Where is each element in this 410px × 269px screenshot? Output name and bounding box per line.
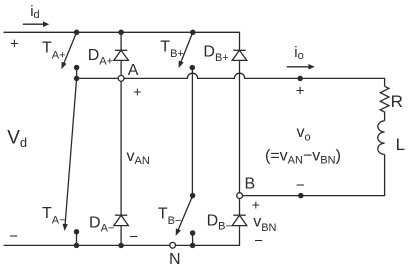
svg-text:id: id [30,3,39,21]
svg-text:−: − [9,228,18,245]
svg-text:DA−: DA− [89,215,114,235]
svg-text:TA−: TA− [42,205,66,227]
junction dot T_A- bottom terminal [74,229,80,235]
wire T_B- stub to bottom rail [192,233,194,245]
svg-text:R: R [391,92,403,111]
junction dot top rail / D_A+ leg [118,30,124,36]
wire node B down through D_B- to bottom rail [239,196,241,216]
junction dot B-line / T_B- leg [190,193,196,199]
svg-text:A: A [128,62,139,79]
svg-text:B: B [245,176,256,193]
svg-text:Vd: Vd [7,128,27,150]
svg-text:DB−: DB− [207,212,232,232]
svg-text:TB−: TB− [158,205,182,227]
wire D_B+ leg to hop [239,60,241,195]
junction dot T_A+ bottom terminal [74,65,80,71]
svg-text:TA+: TA+ [42,40,66,62]
current arrow i_d [23,21,50,27]
node B terminal circle [237,193,243,199]
diode D_A- [115,214,127,216]
svg-text:+: + [133,84,141,100]
svg-text:io: io [294,44,303,62]
junction dot T_B+ bottom terminal [190,65,196,71]
transistor-switch T_B- blade [178,196,193,232]
svg-text:DB+: DB+ [203,44,228,64]
transistor-switch T_B+ blade [180,32,192,63]
svg-text:+: + [10,36,19,53]
transistor-switch T_A- blade [65,78,77,226]
junction dot top rail / T_B+ leg [190,30,196,36]
junction dot top rail / T_A+ leg [74,30,80,36]
junction dot bottom rail / T_B- leg [190,243,196,249]
current arrow i_o [287,64,315,70]
switch T_B- arrowhead [176,228,181,236]
transistor-switch T_A+ blade [63,32,76,64]
svg-text:−: − [296,177,305,194]
node N terminal circle [170,242,176,248]
svg-text:−: − [129,229,138,246]
junction dot v_o plus terminal [297,76,303,82]
wire node A down to D_A- [120,78,122,215]
wire top dc rail (+) [4,32,240,50]
wire D_A+ leg upper [120,32,122,50]
wire T_A+ stub to A line [76,68,78,79]
diode D_B+ [233,49,245,51]
diode D_B- [233,214,245,216]
junction dot T_B- bottom terminal [190,230,196,236]
junction dot bottom rail / D_A- leg [118,243,124,249]
junction dot bottom rail / T_A- leg [74,243,80,249]
svg-text:vBN: vBN [253,214,276,235]
svg-text:+: + [296,83,305,100]
svg-text:TB+: TB+ [160,39,184,61]
wire D_A+ leg to node A [120,60,122,78]
svg-text:N: N [169,251,181,268]
junction dot A-line / T_A+ leg [74,76,80,82]
wire node-A horizontal line with hops over legs [77,73,385,86]
svg-text:vAN: vAN [127,148,150,167]
wire T_A- stub to bottom rail [76,232,78,246]
resistor R [380,86,389,121]
svg-text:−: − [254,232,263,249]
diode D_A+ [115,49,127,51]
wire T_B+ stub down through hop to B line [191,68,193,196]
node A terminal circle [118,76,124,82]
wire node-B horizontal line to load [240,154,385,195]
switch T_B+ arrowhead [179,61,184,69]
svg-text:L: L [396,135,405,154]
switch T_A- arrowhead [63,224,68,231]
svg-text:DA+: DA+ [88,47,113,67]
svg-text:(=vAN−vBN): (=vAN−vBN) [265,147,341,166]
junction dot v_o minus terminal [298,193,304,199]
wire D_A- to bottom rail [120,226,122,246]
inductor L [378,121,385,155]
switch T_A+ arrowhead [61,62,66,69]
wire bottom dc rail (-) [4,226,240,245]
svg-text:+: + [252,197,260,213]
svg-text:vo: vo [297,124,311,144]
